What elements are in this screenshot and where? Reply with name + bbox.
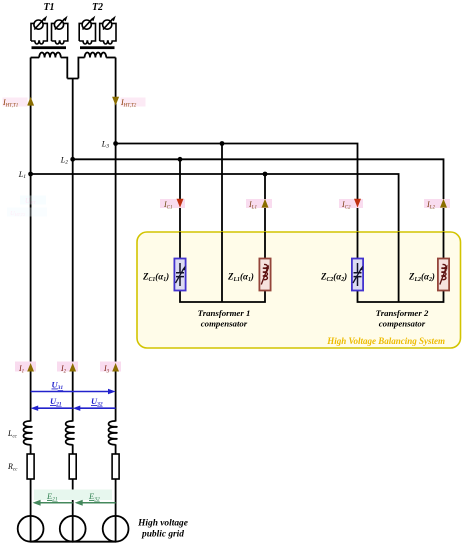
junction dot L2/phase2 [70,157,75,162]
junction dot L3/phase3 [113,141,118,146]
component Z_C2 variable capacitor [352,259,363,291]
source circle phase 2 [60,516,86,542]
wire T1 secondary right lead [61,58,68,79]
transformer T1 core [32,46,67,49]
bus L2 horizontal [73,159,444,258]
comp1 bottom connections [180,291,265,303]
comp2 bottom connections [358,291,444,303]
wire T2 secondary right lead to phase wire 3 [106,57,115,59]
emf arrow E21 (left) [37,502,73,504]
component Z_C1 variable capacitor [174,259,185,291]
emf arrow E32 (left) [79,502,116,504]
High Voltage Balancing System box [137,232,461,348]
current arrow I3 (up) [112,363,119,372]
highlight band I3 [100,362,121,372]
svg-text:Transformer 1: Transformer 1 [198,308,251,318]
svg-text:High Voltage Balancing System: High Voltage Balancing System [326,336,445,346]
wire T2 secondary left lead [78,58,84,79]
svg-text:T1: T1 [43,2,54,13]
highlight band I1 [15,362,36,372]
highlight band I2 [57,362,78,372]
junction dot L1/phase1 [28,172,33,177]
voltage arrow U21 (left) [35,407,73,409]
svg-text:compensator: compensator [201,319,248,329]
source circle phase 1 [18,516,44,542]
highlight band I_HT,T2 [121,98,146,107]
current arrow I1 (up) [27,363,34,372]
current arrow I_C2 (down) [354,199,361,208]
wire junction of T1/T2 inner leads feeding phase wire 2 [67,79,78,160]
highlight band I_L1 [246,199,272,208]
bus L3 horizontal [116,144,358,259]
inductor Lcc phase 1 [23,421,31,445]
transformer T2 primary winding unit 1 [79,16,95,44]
transformer T2 secondary winding [85,52,107,57]
highlight band I_C2 [339,199,363,208]
source circle phase 3 [103,516,129,542]
voltage arrow U31 (right) [31,391,111,393]
resistor Rcc phase 1 [27,454,34,479]
inductor Lcc phase 3 [108,421,116,445]
wire between Lcc and Rcc [31,444,116,454]
junction dot L3/comp1 mid [220,141,225,146]
transformer T1 secondary winding [39,52,61,57]
highlight band E12/E23 [34,490,112,501]
svg-text:T2: T2 [92,2,103,13]
current arrow I_HT,T1 (up) on phase wire 1 [27,97,34,106]
component Z_L2 variable inductor [438,259,449,291]
redraw wires over box: comp drops [180,232,444,302]
svg-text:UHT,T2: UHT,T2 [10,210,25,218]
current arrow I2 (up) [69,363,76,372]
voltage arrow U32 (left) [77,407,116,409]
faint artifact labels left [7,196,47,219]
wire phase 3 vertical [115,58,117,422]
wire phase 1 vertical [30,58,32,422]
highlight band I_HT,T1 [3,98,28,107]
wire ZC1 drop from L2 [179,159,181,258]
junction dot L2/ZC1 [178,157,183,162]
wire comp1 middle drop from L3 [221,144,223,303]
transformer T2 core [80,46,115,49]
highlight band I_L2 [424,199,450,208]
component Z_L1 variable inductor [259,259,270,291]
transformer T2 primary winding unit 2 [100,16,116,44]
transformer T1 primary winding unit 2 [52,16,68,44]
svg-text:public grid: public grid [141,530,184,540]
svg-text:High voltage: High voltage [137,519,188,529]
current arrow I_L1 (up) [262,199,269,208]
svg-text:compensator: compensator [379,319,426,329]
inductor Lcc phase 2 [66,421,74,445]
current arrow I_HT,T2 (down) on phase wire 3 [112,97,119,106]
bottom bus wire [31,541,116,543]
wire phase 2 vertical [72,159,74,421]
svg-text:Transformer 2: Transformer 2 [376,308,429,318]
highlight band I_C1 [160,199,185,208]
wire ZL1 drop from L1 [264,174,266,259]
resistor Rcc phase 2 [69,454,76,479]
current arrow I_L2 (up) [440,199,447,208]
resistor Rcc phase 3 [112,454,119,479]
transformer T1 primary winding unit 1 [31,16,47,44]
bus L1 horizontal [31,174,399,302]
current arrow I_C1 (down) [177,199,184,208]
wire resistor to sources [31,479,116,542]
junction dot L1/ZL1 [263,172,268,177]
wire T1 secondary left lead to phase wire 1 [31,57,40,59]
